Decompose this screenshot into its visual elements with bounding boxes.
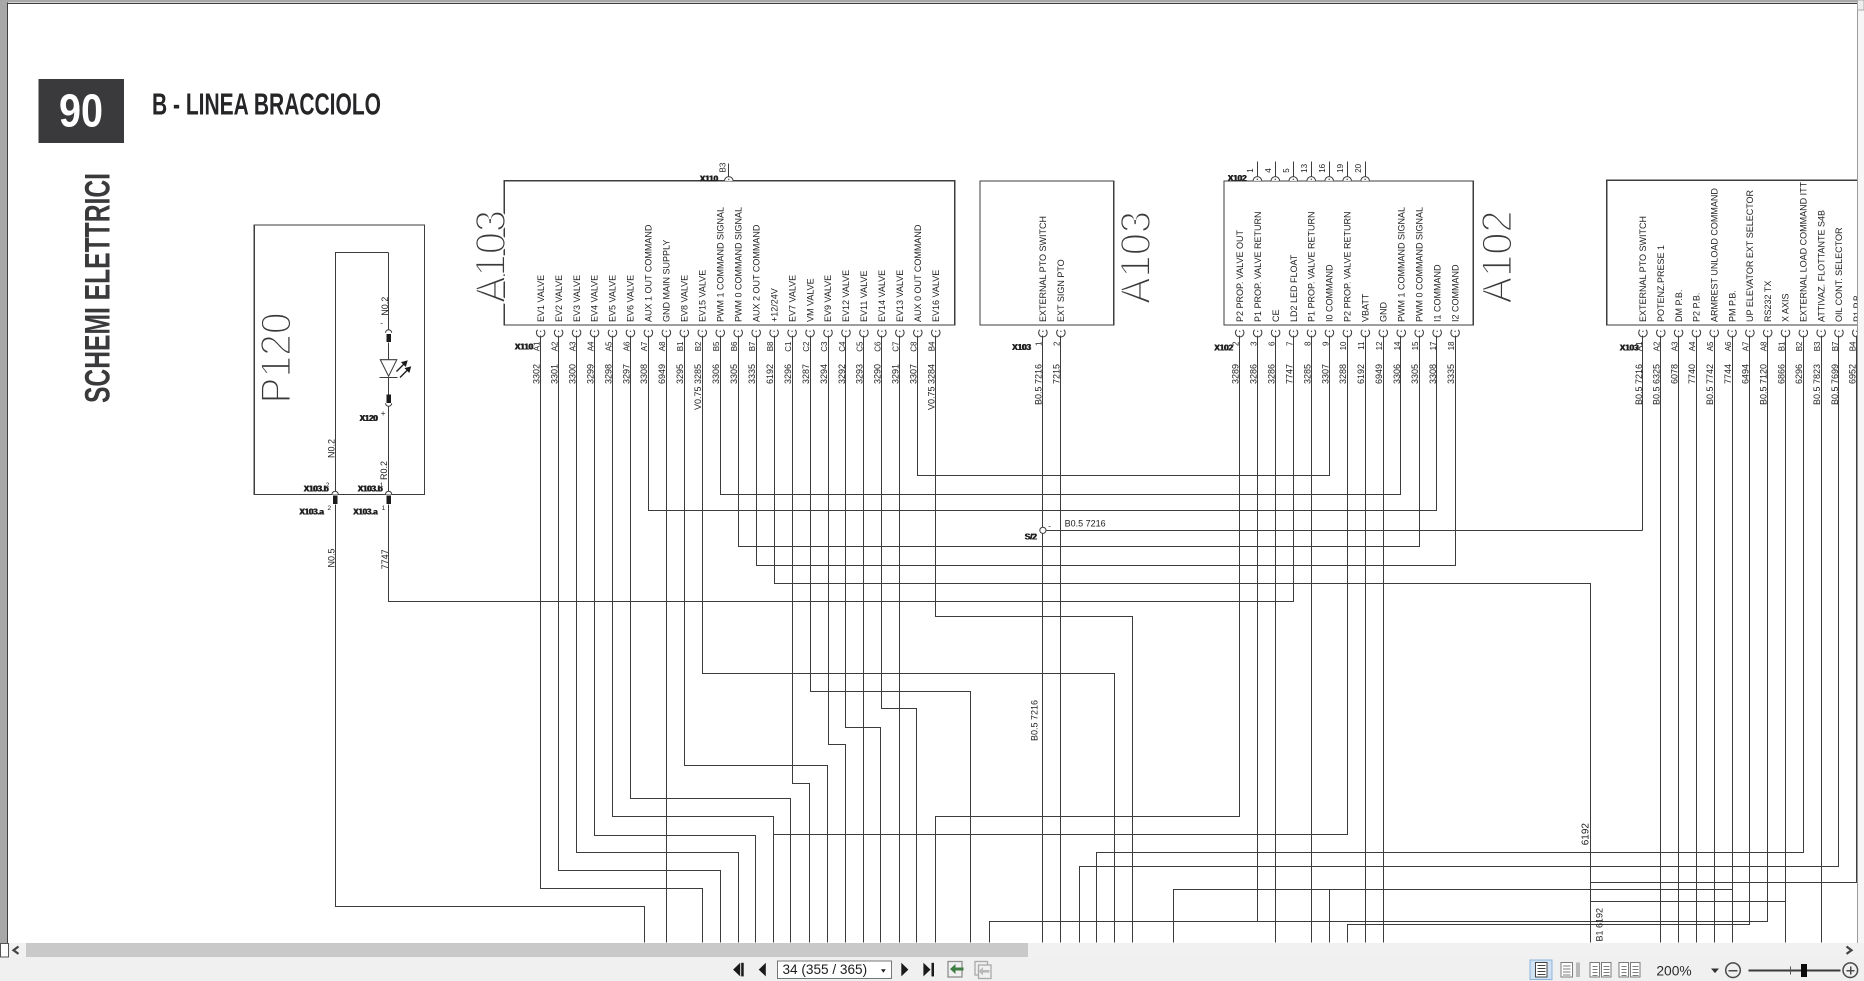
svg-text:B8: B8 bbox=[766, 341, 775, 351]
svg-text:P2 P.B.: P2 P.B. bbox=[1692, 293, 1702, 322]
svg-text:AUX 0 OUT COMMAND: AUX 0 OUT COMMAND bbox=[913, 224, 923, 322]
svg-text:19: 19 bbox=[1336, 163, 1345, 172]
svg-text:15: 15 bbox=[1411, 341, 1420, 350]
svg-text:PM P.B.: PM P.B. bbox=[1727, 290, 1737, 322]
svg-text:34 (355 / 365): 34 (355 / 365) bbox=[783, 962, 868, 977]
svg-text:+: + bbox=[381, 409, 386, 418]
svg-text:R0.2: R0.2 bbox=[379, 461, 389, 480]
svg-text:PWM 1 COMMAND SIGNAL: PWM 1 COMMAND SIGNAL bbox=[1396, 207, 1406, 322]
svg-text:S/2: S/2 bbox=[1025, 532, 1037, 542]
svg-text:B0.5 7216: B0.5 7216 bbox=[1065, 519, 1106, 529]
svg-text:1: 1 bbox=[380, 482, 384, 489]
svg-text:3305: 3305 bbox=[729, 364, 739, 384]
svg-text:4: 4 bbox=[1264, 168, 1273, 173]
svg-text:7744: 7744 bbox=[1723, 364, 1733, 384]
svg-text:EV6 VALVE: EV6 VALVE bbox=[626, 275, 636, 322]
svg-text:B0.5 7742: B0.5 7742 bbox=[1705, 364, 1715, 405]
svg-text:A103: A103 bbox=[1113, 211, 1160, 304]
svg-text:RS232 TX: RS232 TX bbox=[1763, 281, 1773, 322]
svg-text:EV12 VALVE: EV12 VALVE bbox=[841, 270, 851, 322]
svg-text:P2 PROP. VALVE OUT: P2 PROP. VALVE OUT bbox=[1235, 229, 1245, 322]
svg-text:C3: C3 bbox=[820, 341, 829, 352]
svg-text:EXTERNAL PTO SWITCH: EXTERNAL PTO SWITCH bbox=[1038, 216, 1048, 322]
svg-text:AUX 1 OUT COMMAND: AUX 1 OUT COMMAND bbox=[644, 224, 654, 322]
svg-text:EV5 VALVE: EV5 VALVE bbox=[608, 275, 618, 322]
svg-text:CE: CE bbox=[1271, 309, 1281, 322]
svg-text:B5: B5 bbox=[712, 341, 721, 351]
svg-text:N0.5: N0.5 bbox=[326, 549, 336, 568]
svg-text:C1: C1 bbox=[784, 341, 793, 352]
svg-text:X110: X110 bbox=[515, 342, 534, 352]
svg-text:EV4 VALVE: EV4 VALVE bbox=[590, 275, 600, 322]
svg-text:EV3 VALVE: EV3 VALVE bbox=[572, 275, 582, 322]
svg-text:3307: 3307 bbox=[1320, 364, 1330, 384]
svg-text:A5: A5 bbox=[604, 341, 613, 351]
svg-text:7747: 7747 bbox=[1284, 364, 1294, 384]
svg-text:A6: A6 bbox=[622, 341, 631, 351]
svg-text:A7: A7 bbox=[640, 341, 649, 351]
svg-text:AUX 2 OUT COMMAND: AUX 2 OUT COMMAND bbox=[751, 224, 761, 322]
svg-text:3298: 3298 bbox=[603, 364, 613, 384]
svg-text:3288: 3288 bbox=[1338, 364, 1348, 384]
svg-text:1: 1 bbox=[1246, 168, 1255, 173]
svg-text:3308: 3308 bbox=[639, 364, 649, 384]
svg-text:EV13 VALVE: EV13 VALVE bbox=[895, 270, 905, 322]
svg-text:EV8 VALVE: EV8 VALVE bbox=[680, 275, 690, 322]
svg-text:UP ELEVATOR EXT SELECTOR: UP ELEVATOR EXT SELECTOR bbox=[1745, 189, 1755, 322]
svg-text:16: 16 bbox=[1318, 163, 1327, 172]
svg-text:V0.75 3285: V0.75 3285 bbox=[693, 364, 703, 410]
svg-text:18: 18 bbox=[1447, 341, 1456, 350]
svg-text:EV14 VALVE: EV14 VALVE bbox=[877, 270, 887, 322]
svg-text:8: 8 bbox=[1303, 341, 1312, 346]
svg-text:2: 2 bbox=[328, 505, 332, 512]
svg-text:A4: A4 bbox=[1688, 341, 1697, 351]
svg-text:-: - bbox=[1048, 522, 1051, 531]
svg-text:EV15 VALVE: EV15 VALVE bbox=[697, 270, 707, 322]
svg-text:10: 10 bbox=[1339, 341, 1348, 350]
svg-text:B1: B1 bbox=[676, 341, 685, 351]
svg-text:X103: X103 bbox=[1620, 343, 1639, 353]
svg-text:A102: A102 bbox=[1475, 211, 1522, 304]
svg-text:I0 COMMAND: I0 COMMAND bbox=[1325, 264, 1335, 322]
svg-text:X110: X110 bbox=[700, 174, 719, 184]
svg-text:DM P.B.: DM P.B. bbox=[1674, 290, 1684, 322]
svg-text:B7: B7 bbox=[748, 341, 757, 351]
svg-text:GND MAIN SUPPLY: GND MAIN SUPPLY bbox=[662, 240, 672, 322]
svg-text:3285: 3285 bbox=[1302, 364, 1312, 384]
svg-text:ATTIVAZ. FLOTTANTE S4B: ATTIVAZ. FLOTTANTE S4B bbox=[1816, 210, 1826, 322]
svg-text:P120: P120 bbox=[254, 313, 301, 404]
svg-text:C2: C2 bbox=[802, 341, 811, 352]
svg-text:13: 13 bbox=[1300, 163, 1309, 172]
svg-text:20: 20 bbox=[1354, 163, 1363, 172]
svg-text:I2 COMMAND: I2 COMMAND bbox=[1450, 264, 1460, 322]
svg-text:I1 COMMAND: I1 COMMAND bbox=[1432, 264, 1442, 322]
svg-text:90: 90 bbox=[59, 85, 103, 137]
svg-text:EV9 VALVE: EV9 VALVE bbox=[823, 275, 833, 322]
svg-text:POTENZ.PRESE 1: POTENZ.PRESE 1 bbox=[1656, 245, 1666, 322]
svg-text:1: 1 bbox=[382, 505, 386, 512]
svg-text:B3: B3 bbox=[1813, 341, 1822, 351]
svg-text:EXTERNAL LOAD COMMAND ITT: EXTERNAL LOAD COMMAND ITT bbox=[1799, 181, 1809, 322]
svg-text:3306: 3306 bbox=[711, 364, 721, 384]
svg-text:EXT SIGN PTO: EXT SIGN PTO bbox=[1056, 259, 1066, 322]
svg-text:X102: X102 bbox=[1228, 173, 1247, 183]
svg-text:6949: 6949 bbox=[1374, 364, 1384, 384]
svg-text:9: 9 bbox=[1321, 341, 1330, 346]
svg-text:3302: 3302 bbox=[531, 364, 541, 384]
svg-text:7747: 7747 bbox=[380, 549, 390, 569]
svg-text:3297: 3297 bbox=[621, 364, 631, 384]
svg-text:B2: B2 bbox=[1795, 341, 1804, 351]
svg-text:PWM 0 COMMAND SIGNAL: PWM 0 COMMAND SIGNAL bbox=[733, 207, 743, 322]
svg-text:B3: B3 bbox=[719, 162, 728, 172]
svg-text:11: 11 bbox=[1357, 341, 1366, 350]
svg-text:X102: X102 bbox=[1215, 343, 1234, 353]
svg-text:VBATT: VBATT bbox=[1361, 293, 1371, 322]
svg-text:VM VALVE: VM VALVE bbox=[805, 278, 815, 322]
svg-text:EV16 VALVE: EV16 VALVE bbox=[931, 270, 941, 322]
svg-text:B1 6192: B1 6192 bbox=[1595, 908, 1605, 942]
svg-text:EV7 VALVE: EV7 VALVE bbox=[787, 275, 797, 322]
svg-text:200%: 200% bbox=[1656, 964, 1691, 979]
svg-text:3335: 3335 bbox=[1446, 364, 1456, 384]
svg-text:X103: X103 bbox=[1013, 342, 1032, 352]
svg-text:ARMREST UNLOAD COMMAND: ARMREST UNLOAD COMMAND bbox=[1709, 188, 1719, 322]
svg-text:X AXIS: X AXIS bbox=[1781, 293, 1791, 322]
svg-text:EXTERNAL PTO SWITCH: EXTERNAL PTO SWITCH bbox=[1638, 216, 1648, 322]
svg-text:EV1 VALVE: EV1 VALVE bbox=[536, 275, 546, 322]
svg-text:B2: B2 bbox=[694, 341, 703, 351]
svg-text:3299: 3299 bbox=[585, 364, 595, 384]
svg-text:5: 5 bbox=[1282, 168, 1291, 173]
svg-text:6949: 6949 bbox=[657, 364, 667, 384]
svg-text:3286: 3286 bbox=[1266, 364, 1276, 384]
svg-text:B1: B1 bbox=[1777, 341, 1786, 351]
svg-text:3305: 3305 bbox=[1410, 364, 1420, 384]
svg-text:X103.a: X103.a bbox=[354, 508, 379, 517]
svg-text:+12/24V: +12/24V bbox=[769, 288, 779, 322]
svg-text:3287: 3287 bbox=[801, 364, 811, 384]
svg-text:B6: B6 bbox=[730, 341, 739, 351]
svg-text:PWM 1 COMMAND SIGNAL: PWM 1 COMMAND SIGNAL bbox=[715, 207, 725, 322]
svg-text:P1 PROP. VALVE RETURN: P1 PROP. VALVE RETURN bbox=[1307, 211, 1317, 322]
svg-text:GND: GND bbox=[1379, 302, 1389, 323]
svg-text:A5: A5 bbox=[1706, 341, 1715, 351]
svg-text:3296: 3296 bbox=[783, 364, 793, 384]
svg-text:6866: 6866 bbox=[1776, 364, 1786, 384]
svg-text:3295: 3295 bbox=[675, 364, 685, 384]
svg-text:6296: 6296 bbox=[1794, 364, 1804, 384]
svg-text:6192: 6192 bbox=[1581, 823, 1592, 846]
svg-text:A8: A8 bbox=[658, 341, 667, 351]
svg-text:EV2 VALVE: EV2 VALVE bbox=[554, 275, 564, 322]
svg-text:EV11 VALVE: EV11 VALVE bbox=[859, 270, 869, 322]
svg-text:LD2 LED FLOAT: LD2 LED FLOAT bbox=[1289, 254, 1299, 322]
svg-text:7740: 7740 bbox=[1687, 364, 1697, 384]
svg-text:3300: 3300 bbox=[567, 364, 577, 384]
svg-text:B0.5 7216: B0.5 7216 bbox=[1030, 700, 1040, 741]
svg-text:-: - bbox=[380, 319, 383, 328]
svg-text:3294: 3294 bbox=[819, 364, 829, 384]
svg-text:X103.a: X103.a bbox=[300, 508, 325, 517]
svg-text:OIL CONT. SELECTOR: OIL CONT. SELECTOR bbox=[1834, 227, 1844, 322]
svg-text:6078: 6078 bbox=[1669, 364, 1679, 384]
svg-text:X120: X120 bbox=[360, 414, 379, 423]
svg-text:A6: A6 bbox=[1724, 341, 1733, 351]
svg-text:6192: 6192 bbox=[1356, 364, 1366, 384]
svg-text:B0.5 7823: B0.5 7823 bbox=[1812, 364, 1822, 405]
svg-text:6192: 6192 bbox=[765, 364, 775, 384]
svg-text:P1 PROP. VALVE RETURN: P1 PROP. VALVE RETURN bbox=[1253, 211, 1263, 322]
svg-text:P2 PROP. VALVE RETURN: P2 PROP. VALVE RETURN bbox=[1343, 211, 1353, 322]
svg-text:3335: 3335 bbox=[747, 364, 757, 384]
svg-text:A103: A103 bbox=[468, 210, 515, 303]
svg-text:12: 12 bbox=[1375, 341, 1384, 350]
svg-text:B - LINEA BRACCIOLO: B - LINEA BRACCIOLO bbox=[152, 87, 381, 122]
svg-text:3301: 3301 bbox=[549, 364, 559, 384]
svg-text:2: 2 bbox=[326, 482, 330, 489]
svg-text:N0.2: N0.2 bbox=[327, 439, 337, 458]
svg-text:SCHEMI ELETTRICI: SCHEMI ELETTRICI bbox=[79, 173, 118, 403]
svg-text:3286: 3286 bbox=[1248, 364, 1258, 384]
svg-text:N0.2: N0.2 bbox=[380, 297, 390, 316]
svg-text:PWM 0 COMMAND SIGNAL: PWM 0 COMMAND SIGNAL bbox=[1414, 207, 1424, 322]
